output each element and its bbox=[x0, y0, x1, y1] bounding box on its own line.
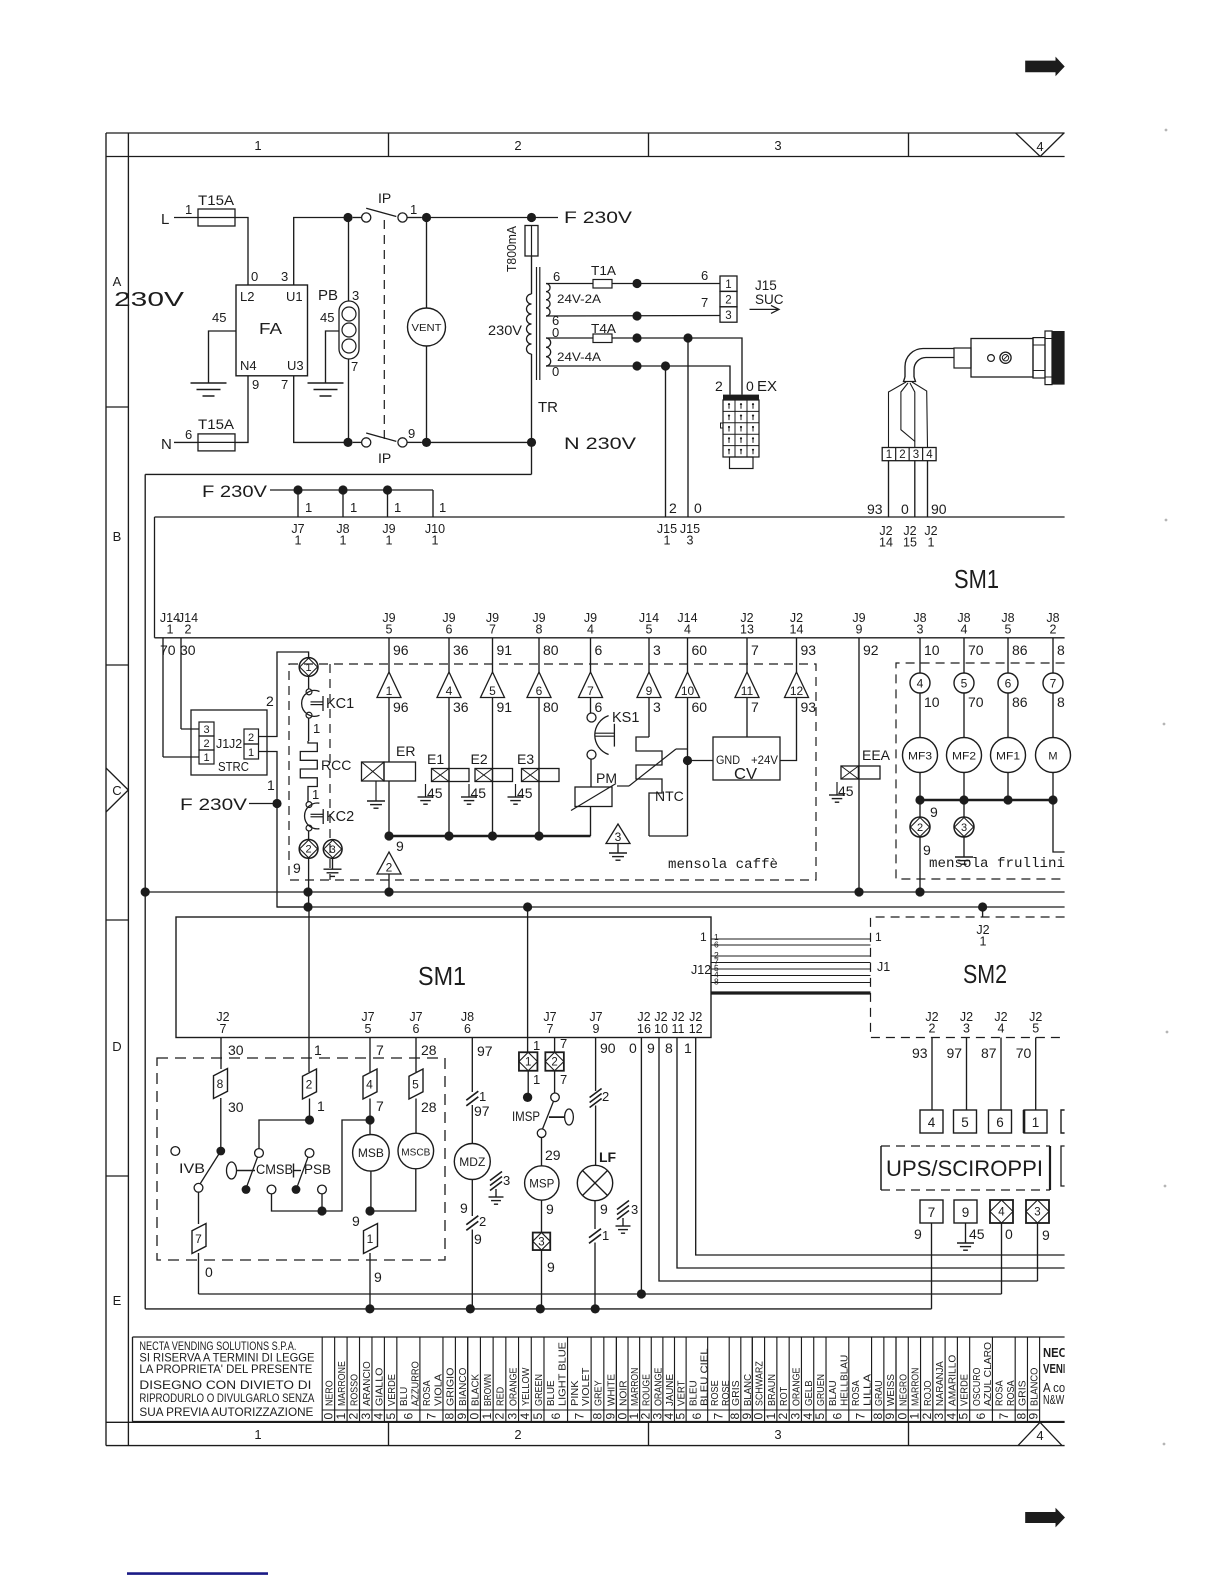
box UPS SCIROPPI bbox=[881, 1146, 1050, 1190]
svg-text:13: 13 bbox=[740, 623, 754, 637]
svg-text:1: 1 bbox=[314, 1042, 322, 1058]
svg-text:2: 2 bbox=[514, 138, 521, 153]
svg-text:M: M bbox=[1048, 751, 1057, 763]
wire 10 drop bbox=[919, 638, 921, 673]
svg-text:9: 9 bbox=[293, 860, 301, 876]
svg-text:1: 1 bbox=[254, 138, 261, 153]
node T4A wire J15-3 tap bbox=[632, 333, 641, 342]
svg-text:5: 5 bbox=[646, 623, 653, 637]
svg-text:0: 0 bbox=[746, 378, 754, 394]
svg-text:7: 7 bbox=[560, 1036, 567, 1051]
node PSB top bbox=[305, 1115, 314, 1124]
svg-text:WEISS: WEISS bbox=[885, 1374, 897, 1406]
svg-text:2: 2 bbox=[929, 1022, 936, 1036]
node top bus at VENT bbox=[422, 213, 431, 222]
lamp PB indicator bbox=[348, 218, 350, 302]
margin specks bbox=[1165, 129, 1168, 132]
svg-text:JAUNE: JAUNE bbox=[664, 1374, 676, 1406]
wire 7 J7-5 MSB bbox=[369, 1038, 371, 1073]
svg-text:GRUEN: GRUEN bbox=[815, 1374, 827, 1406]
node PSB NO bbox=[317, 1206, 326, 1215]
svg-text:MARRON: MARRON bbox=[910, 1368, 922, 1406]
node E3 on hot bus bbox=[534, 831, 543, 840]
svg-text:1: 1 bbox=[312, 787, 319, 802]
box STRC bbox=[191, 710, 267, 775]
svg-text:3: 3 bbox=[917, 623, 924, 637]
svg-text:TR: TR bbox=[538, 399, 558, 416]
svg-text:AZZURRO: AZZURRO bbox=[409, 1361, 421, 1406]
wire square1 to 1MSP pivot bbox=[527, 1071, 529, 1093]
wire to F 230V label bbox=[536, 217, 558, 219]
wire RCC to KC2 bbox=[307, 788, 309, 802]
switch CMSB bbox=[227, 1162, 237, 1179]
svg-text:ROSA: ROSA bbox=[850, 1380, 862, 1406]
svg-text:PINK: PINK bbox=[569, 1380, 581, 1406]
svg-text:9: 9 bbox=[600, 1201, 608, 1217]
pin diamond 8 bbox=[214, 1069, 228, 1099]
svg-text:7: 7 bbox=[425, 1413, 439, 1420]
wire 93 to J2-14 bbox=[888, 461, 890, 517]
ground circled 3 bbox=[332, 858, 334, 869]
svg-text:4: 4 bbox=[587, 623, 594, 637]
arrow SUC bbox=[750, 308, 780, 310]
connector J2 bbox=[244, 729, 259, 744]
svg-text:1: 1 bbox=[725, 279, 731, 291]
svg-text:LILLA: LILLA bbox=[861, 1374, 873, 1406]
svg-text:ARANCIO: ARANCIO bbox=[361, 1361, 373, 1406]
svg-text:ROUGE: ROUGE bbox=[641, 1374, 653, 1406]
box SM1 main board bbox=[155, 516, 1065, 518]
svg-text:YELLOW: YELLOW bbox=[520, 1368, 532, 1406]
wire N return to left rail bbox=[145, 473, 531, 475]
wire 9 MSB to bus bbox=[369, 1253, 371, 1309]
wire E return bus bbox=[145, 1308, 931, 1310]
svg-text:4: 4 bbox=[998, 1207, 1005, 1219]
wire top bus to TR bbox=[431, 217, 532, 219]
wire TR primary to N return rail bbox=[531, 354, 533, 474]
svg-text:NEGRO: NEGRO bbox=[897, 1374, 909, 1406]
svg-text:5: 5 bbox=[957, 1413, 971, 1420]
node MSP on E bus bbox=[536, 1304, 545, 1313]
svg-text:D: D bbox=[112, 1039, 121, 1054]
svg-text:1: 1 bbox=[350, 500, 357, 515]
wire 28 J7-6 MSCB bbox=[415, 1038, 417, 1073]
contact PSB NO bbox=[318, 1185, 327, 1194]
svg-text:9: 9 bbox=[646, 684, 653, 698]
svg-text:86: 86 bbox=[1012, 642, 1028, 658]
svg-text:6: 6 bbox=[701, 268, 708, 283]
wire 70 drop bbox=[963, 638, 965, 673]
svg-text:9: 9 bbox=[962, 1205, 970, 1220]
thermal switch KC2 bbox=[305, 803, 320, 829]
svg-text:1: 1 bbox=[410, 202, 417, 217]
svg-text:IP: IP bbox=[378, 450, 391, 466]
svg-text:1: 1 bbox=[928, 536, 935, 550]
node MDZ on E bus bbox=[466, 1304, 475, 1313]
pin circled 7 bbox=[1043, 673, 1063, 693]
svg-text:SCHWARZ: SCHWARZ bbox=[754, 1361, 766, 1406]
wire 93 SM2 out bbox=[931, 1038, 933, 1111]
svg-text:E2: E2 bbox=[471, 751, 488, 767]
svg-text:LA PROPRIETA' DEL PRESENTE: LA PROPRIETA' DEL PRESENTE bbox=[139, 1362, 312, 1376]
svg-text:7: 7 bbox=[489, 623, 496, 637]
svg-text:9: 9 bbox=[252, 377, 259, 392]
svg-text:3: 3 bbox=[1034, 1207, 1040, 1219]
wire diamond8 to IVB bbox=[220, 1098, 222, 1151]
svg-text:1: 1 bbox=[886, 449, 892, 461]
svg-text:10: 10 bbox=[654, 1022, 668, 1036]
node KC chain on bus1 bbox=[303, 887, 312, 896]
svg-text:60: 60 bbox=[692, 699, 708, 715]
wire MSCB return bbox=[370, 1169, 416, 1211]
box FA mains filter bbox=[236, 285, 308, 376]
svg-text:5: 5 bbox=[961, 677, 968, 691]
svg-text:1: 1 bbox=[602, 1228, 609, 1243]
wire STRC J2-2 to KC chain bbox=[259, 652, 309, 737]
node frullini on bus1 bbox=[915, 887, 924, 896]
motor MSB bbox=[369, 1120, 371, 1135]
svg-text:ROSA: ROSA bbox=[421, 1380, 433, 1406]
svg-text:0: 0 bbox=[629, 1040, 637, 1056]
node SM2 J2-1 bbox=[978, 902, 987, 911]
arrow top right bbox=[1025, 57, 1065, 77]
wire J2-1 SM2 to bus2 bbox=[982, 907, 984, 917]
svg-text:3: 3 bbox=[653, 642, 661, 658]
svg-text:AMARILLO: AMARILLO bbox=[946, 1355, 958, 1406]
svg-text:7: 7 bbox=[560, 1072, 567, 1087]
transformer TR secondary 24V-2A bbox=[546, 284, 550, 317]
svg-text:5: 5 bbox=[386, 623, 393, 637]
wire FA U3 to bottom bus bbox=[294, 376, 348, 443]
svg-text:F 230V: F 230V bbox=[202, 483, 267, 501]
svg-text:1: 1 bbox=[432, 534, 439, 548]
svg-text:F 230V: F 230V bbox=[180, 796, 247, 814]
svg-text:BLUE: BLUE bbox=[545, 1380, 557, 1406]
switch KS1 bbox=[590, 698, 592, 714]
svg-text:1: 1 bbox=[439, 500, 446, 515]
svg-text:BLACK: BLACK bbox=[469, 1374, 481, 1406]
contact KC2 top bbox=[306, 802, 312, 808]
svg-text:F 230V: F 230V bbox=[564, 209, 632, 227]
wire bus2 N line bbox=[277, 906, 1065, 908]
svg-text:14: 14 bbox=[879, 536, 893, 550]
svg-text:MDZ: MDZ bbox=[459, 1157, 485, 1169]
svg-text:3: 3 bbox=[631, 1202, 638, 1217]
svg-text:1: 1 bbox=[317, 1098, 325, 1114]
wire secondary2 to fuse T4A bbox=[546, 337, 593, 339]
svg-text:GRIS: GRIS bbox=[730, 1380, 742, 1406]
svg-text:29: 29 bbox=[545, 1147, 561, 1163]
svg-text:1: 1 bbox=[386, 534, 393, 548]
motor VENT fan bbox=[426, 218, 428, 309]
node MF3 on return bus bbox=[915, 795, 924, 804]
node return wire J15-1 tap bbox=[632, 361, 641, 370]
svg-text:E: E bbox=[113, 1293, 122, 1308]
connector J15 SUC bbox=[720, 276, 737, 291]
svg-text:PM: PM bbox=[596, 770, 617, 786]
ground E2 45 bbox=[468, 784, 470, 797]
svg-text:EX: EX bbox=[757, 378, 777, 395]
svg-text:6: 6 bbox=[996, 1115, 1004, 1130]
svg-text:7: 7 bbox=[587, 684, 594, 698]
fuse T800mA bbox=[525, 226, 538, 257]
svg-text:10: 10 bbox=[924, 642, 940, 658]
svg-text:J2: J2 bbox=[229, 737, 242, 751]
svg-text:ROSE: ROSE bbox=[709, 1380, 721, 1406]
svg-text:E3: E3 bbox=[517, 751, 534, 767]
wire 93 to CV +24V bbox=[780, 698, 797, 761]
svg-text:14: 14 bbox=[790, 623, 804, 637]
svg-text:NTC: NTC bbox=[655, 788, 684, 804]
svg-text:U1: U1 bbox=[286, 289, 303, 304]
svg-text:97: 97 bbox=[477, 1043, 493, 1059]
svg-text:9: 9 bbox=[856, 623, 863, 637]
svg-text:VENT: VENT bbox=[412, 322, 443, 334]
svg-text:9: 9 bbox=[396, 838, 404, 854]
svg-text:BLEU: BLEU bbox=[687, 1380, 699, 1406]
switch PSB bbox=[293, 1164, 295, 1178]
svg-text:3: 3 bbox=[653, 699, 661, 715]
svg-text:6: 6 bbox=[595, 642, 603, 658]
svg-text:J12: J12 bbox=[691, 963, 711, 977]
svg-text:T1A: T1A bbox=[591, 263, 616, 278]
logo NECTA cut bbox=[1043, 1345, 1087, 1407]
svg-text:1: 1 bbox=[684, 1040, 692, 1056]
svg-text:1: 1 bbox=[305, 500, 312, 515]
terminal square 1 thick edge bbox=[1023, 1110, 1026, 1133]
svg-text:70: 70 bbox=[968, 642, 984, 658]
svg-text:8: 8 bbox=[714, 977, 719, 987]
svg-text:15: 15 bbox=[903, 536, 917, 550]
node TR primary bottom bbox=[527, 438, 536, 447]
svg-text:45: 45 bbox=[320, 310, 334, 325]
svg-text:PB: PB bbox=[318, 287, 338, 304]
svg-text:T15A: T15A bbox=[198, 193, 234, 208]
svg-text:7: 7 bbox=[712, 1413, 726, 1420]
wire 92 J9-9 bbox=[858, 766, 860, 892]
wire feedthrough 1MSP column bbox=[527, 907, 529, 1038]
disclaimer text bbox=[139, 1339, 314, 1419]
wire 29 to MSP bbox=[541, 1138, 543, 1166]
wires row C pin drops bbox=[163, 638, 859, 766]
node 0 wire bbox=[637, 1289, 646, 1298]
terminal squares row1 bbox=[920, 1110, 943, 1133]
transformer TR primary winding 230V bbox=[527, 294, 532, 354]
svg-text:NARANJA: NARANJA bbox=[934, 1361, 946, 1406]
svg-text:4: 4 bbox=[926, 449, 933, 461]
svg-text:IMSP: IMSP bbox=[512, 1109, 540, 1124]
shield 3 ground MDZ bbox=[490, 1172, 502, 1181]
svg-text:NOIR: NOIR bbox=[617, 1380, 629, 1406]
svg-text:A: A bbox=[113, 274, 122, 289]
svg-text:1: 1 bbox=[267, 777, 275, 793]
svg-text:9: 9 bbox=[923, 842, 931, 858]
svg-text:GRIS: GRIS bbox=[1017, 1380, 1029, 1406]
svg-text:97: 97 bbox=[947, 1045, 963, 1061]
svg-text:3: 3 bbox=[503, 1173, 510, 1188]
wire 1 to square1MSP bbox=[527, 1038, 529, 1053]
node MSB bottom bbox=[365, 1206, 374, 1215]
thermal switch KC1 bbox=[302, 691, 320, 717]
svg-text:2: 2 bbox=[514, 1427, 521, 1442]
svg-text:E1: E1 bbox=[427, 751, 444, 767]
svg-text:9: 9 bbox=[374, 1269, 382, 1285]
svg-text:SM1: SM1 bbox=[954, 564, 999, 594]
svg-text:VERDE: VERDE bbox=[386, 1374, 398, 1406]
svg-text:6: 6 bbox=[549, 1413, 563, 1420]
svg-text:1: 1 bbox=[533, 1038, 540, 1053]
svg-text:HELLBLAU: HELLBLAU bbox=[839, 1355, 851, 1406]
svg-text:45: 45 bbox=[471, 785, 487, 801]
svg-text:GREEN: GREEN bbox=[533, 1374, 545, 1406]
svg-text:2: 2 bbox=[899, 449, 905, 461]
dashed box mensola caffe bbox=[289, 664, 816, 880]
svg-text:J15: J15 bbox=[755, 278, 777, 293]
svg-text:1: 1 bbox=[295, 534, 302, 548]
box SM1 power board bbox=[176, 917, 711, 1038]
box SM2 board dashed bbox=[871, 917, 1065, 1038]
wire bus1 F line bbox=[145, 891, 1064, 893]
svg-text:ROT: ROT bbox=[778, 1386, 790, 1406]
pin circled 5 bbox=[954, 673, 974, 693]
svg-text:3: 3 bbox=[352, 288, 359, 303]
svg-text:3: 3 bbox=[961, 822, 967, 834]
svg-text:93: 93 bbox=[801, 699, 817, 715]
hot bus row C bbox=[389, 835, 591, 838]
svg-text:ROJO: ROJO bbox=[922, 1380, 934, 1406]
wire circled2 to bus bbox=[308, 858, 310, 907]
thermistor NTC bbox=[648, 698, 650, 738]
node ER on bus1 bbox=[384, 887, 393, 896]
motor MF1 bbox=[1007, 693, 1009, 738]
svg-text:5: 5 bbox=[384, 1413, 398, 1420]
wire 86 drop bbox=[1007, 638, 1009, 673]
contact KC2 bottom bbox=[306, 825, 312, 831]
pin circled 3 bbox=[323, 840, 342, 859]
switch 1MSP bbox=[554, 1071, 556, 1093]
svg-text:7: 7 bbox=[853, 1413, 867, 1420]
wire 8 J2-11 bbox=[677, 1038, 1065, 1269]
node CV GND tee bbox=[683, 756, 692, 765]
svg-text:ROSA: ROSA bbox=[994, 1380, 1006, 1406]
wire 8 drop bbox=[1052, 638, 1054, 673]
svg-text:L2: L2 bbox=[240, 289, 254, 304]
svg-text:RCC: RCC bbox=[321, 757, 351, 773]
terminal diamond 3 bbox=[1026, 1200, 1049, 1223]
svg-text:86: 86 bbox=[1012, 694, 1028, 710]
svg-text:0: 0 bbox=[1005, 1226, 1013, 1242]
wire secondary1 to fuse T1A bbox=[546, 283, 593, 285]
svg-text:1: 1 bbox=[367, 1232, 374, 1246]
svg-text:L: L bbox=[161, 211, 169, 228]
wire IVB to diamond7 bbox=[198, 1192, 200, 1224]
svg-text:1: 1 bbox=[340, 534, 347, 548]
connector EX bbox=[723, 395, 759, 400]
svg-text:4: 4 bbox=[1036, 1428, 1043, 1443]
pin circled 3 frullini bbox=[954, 817, 974, 837]
node M on return bus bbox=[1048, 795, 1057, 804]
svg-text:0: 0 bbox=[901, 501, 909, 517]
svg-text:1: 1 bbox=[203, 752, 209, 764]
probe wires fan bbox=[889, 382, 907, 448]
svg-text:5: 5 bbox=[365, 1022, 372, 1036]
svg-text:GRAU: GRAU bbox=[873, 1380, 885, 1406]
node MSB top bbox=[365, 1115, 374, 1124]
wire N to fuse bbox=[174, 441, 198, 443]
svg-text:6: 6 bbox=[446, 623, 453, 637]
wire 1 J7-5 PSB column bbox=[308, 1038, 310, 1073]
wire 90 to J2-1 bbox=[927, 461, 929, 517]
wire T4A to EX connector bbox=[612, 338, 742, 395]
svg-text:3: 3 bbox=[687, 534, 694, 548]
svg-text:230V: 230V bbox=[488, 322, 523, 338]
svg-text:1: 1 bbox=[167, 623, 174, 637]
ground E1 45 bbox=[425, 784, 427, 797]
contact CMSB NO bbox=[267, 1185, 276, 1194]
svg-text:N 230V: N 230V bbox=[564, 435, 636, 453]
svg-text:LIGHT BLUE: LIGHT BLUE bbox=[556, 1342, 568, 1406]
dashed box mensola frullini bbox=[896, 663, 1065, 879]
svg-text:BIANCO: BIANCO bbox=[457, 1368, 469, 1406]
ground ER bbox=[375, 781, 377, 801]
svg-text:30: 30 bbox=[228, 1099, 244, 1115]
node EEA on bus1 bbox=[854, 887, 863, 896]
svg-text:U3: U3 bbox=[287, 358, 304, 373]
wire MSP to E bus bbox=[541, 1250, 543, 1309]
svg-text:9: 9 bbox=[930, 804, 938, 820]
blue underline mark bbox=[127, 1572, 268, 1575]
svg-text:ROSA: ROSA bbox=[1005, 1380, 1017, 1406]
svg-text:1: 1 bbox=[533, 1072, 540, 1087]
node F230V bbox=[272, 799, 281, 808]
wire square7 down bbox=[931, 1223, 933, 1309]
node bottom bus at PB bbox=[343, 438, 352, 447]
svg-text:CMSB: CMSB bbox=[256, 1162, 293, 1177]
wire 1 J2-12 bbox=[696, 1038, 1065, 1256]
svg-text:B: B bbox=[113, 529, 122, 544]
svg-text:6: 6 bbox=[553, 269, 560, 284]
svg-text:16: 16 bbox=[637, 1022, 651, 1036]
svg-text:KS1: KS1 bbox=[612, 710, 639, 726]
svg-text:1: 1 bbox=[525, 1057, 531, 1069]
svg-text:PSB: PSB bbox=[304, 1162, 331, 1177]
svg-text:5: 5 bbox=[489, 684, 496, 698]
pin square diamond 2 bbox=[545, 1052, 564, 1071]
svg-text:3: 3 bbox=[538, 1236, 544, 1248]
node ER on hot bus bbox=[384, 831, 393, 840]
pin square diamond 3 bbox=[533, 1233, 551, 1251]
svg-text:IVB: IVB bbox=[179, 1161, 205, 1176]
svg-text:2: 2 bbox=[306, 1078, 313, 1092]
motor MF2 bbox=[963, 693, 965, 738]
svg-text:3: 3 bbox=[281, 269, 288, 284]
wire circled3 from bus bbox=[963, 800, 965, 817]
wire 9 J2-10 bbox=[659, 1038, 1038, 1282]
contact KC1 top bbox=[308, 676, 310, 689]
svg-text:MF3: MF3 bbox=[908, 751, 932, 763]
svg-text:87: 87 bbox=[981, 1045, 997, 1061]
wire NTC to link bbox=[648, 795, 650, 836]
link NTC to 60 wire bbox=[649, 835, 688, 837]
svg-text:36: 36 bbox=[453, 699, 469, 715]
svg-text:45: 45 bbox=[517, 785, 533, 801]
svg-text:GELB: GELB bbox=[803, 1380, 815, 1406]
svg-text:1: 1 bbox=[313, 721, 320, 736]
wire fuse to primary coil bbox=[531, 256, 533, 294]
svg-text:9: 9 bbox=[474, 1231, 482, 1247]
svg-text:230V: 230V bbox=[114, 289, 185, 311]
svg-text:IP: IP bbox=[378, 190, 391, 206]
